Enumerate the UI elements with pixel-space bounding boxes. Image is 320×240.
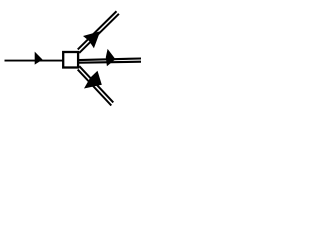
wire: up-right double line stroke 2 (78, 11, 117, 49)
wire: input line (5, 60, 64, 62)
junction box (63, 52, 78, 68)
arrowhead on input wire (35, 52, 43, 65)
wire: horizontal double line lower stroke (79, 62, 142, 63)
scattering junction diagram (0, 0, 141, 113)
arrowhead on down-right double line (84, 71, 102, 89)
wire: down-right double line stroke 2 (79, 66, 113, 102)
arrowhead on up-right double line (83, 31, 100, 48)
wire: horizontal double line upper stroke (79, 59, 142, 61)
arrowhead on horizontal double line (106, 49, 116, 66)
wire: down-right double line stroke 1 (78, 70, 112, 106)
wire: up-right double line stroke 1 (79, 14, 119, 53)
